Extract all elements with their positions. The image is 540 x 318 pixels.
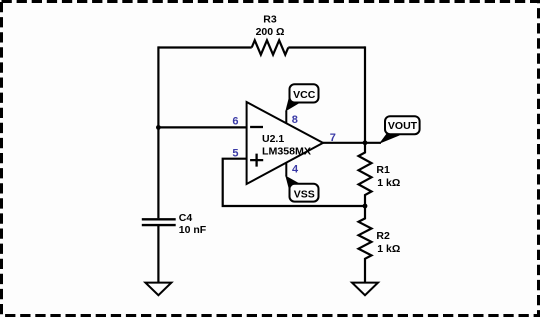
svg-text:1 kΩ: 1 kΩ [377,177,400,189]
node junction output [363,140,368,145]
svg-text:6: 6 [232,115,238,127]
svg-text:5: 5 [232,148,238,160]
svg-text:R1: R1 [376,164,390,176]
svg-text:10 nF: 10 nF [179,224,207,236]
resistor R1 [359,143,401,206]
resistor R3 [252,14,289,55]
wire left vertical (top wire down to C4) [157,46,159,218]
ground right [352,283,378,296]
wire R3 to right vertical [288,46,365,48]
svg-text:U2.1: U2.1 [262,133,284,145]
wire pin 6 input [158,126,247,128]
node junction left [156,125,161,130]
svg-text:VSS: VSS [294,189,315,201]
VCC power flag [285,84,318,123]
VOUT output flag [379,116,420,144]
resistor R2 [359,206,401,283]
wire pin 5 feedback loop [223,159,365,206]
svg-text:VCC: VCC [293,89,316,101]
wire right vertical (top to output node) [364,46,366,142]
svg-text:1 kΩ: 1 kΩ [377,243,400,255]
svg-text:LM358MX: LM358MX [262,145,311,157]
svg-text:VOUT: VOUT [388,120,418,132]
op-amp U2.1 [247,102,323,184]
svg-text:C4: C4 [179,212,193,224]
capacitor C4 [142,212,207,236]
wire output pin 7 [323,142,381,144]
svg-text:8: 8 [292,114,298,126]
svg-text:200 Ω: 200 Ω [256,26,285,38]
wire top-left horizontal (node A to R3) [158,46,251,48]
node junction R1-R2 [363,204,368,209]
VSS power flag [285,163,318,202]
ground left [145,283,171,296]
svg-text:R2: R2 [376,230,390,242]
svg-text:R3: R3 [263,14,277,26]
wire C4 to ground [157,226,159,283]
svg-text:7: 7 [330,132,336,144]
svg-text:4: 4 [292,164,299,176]
